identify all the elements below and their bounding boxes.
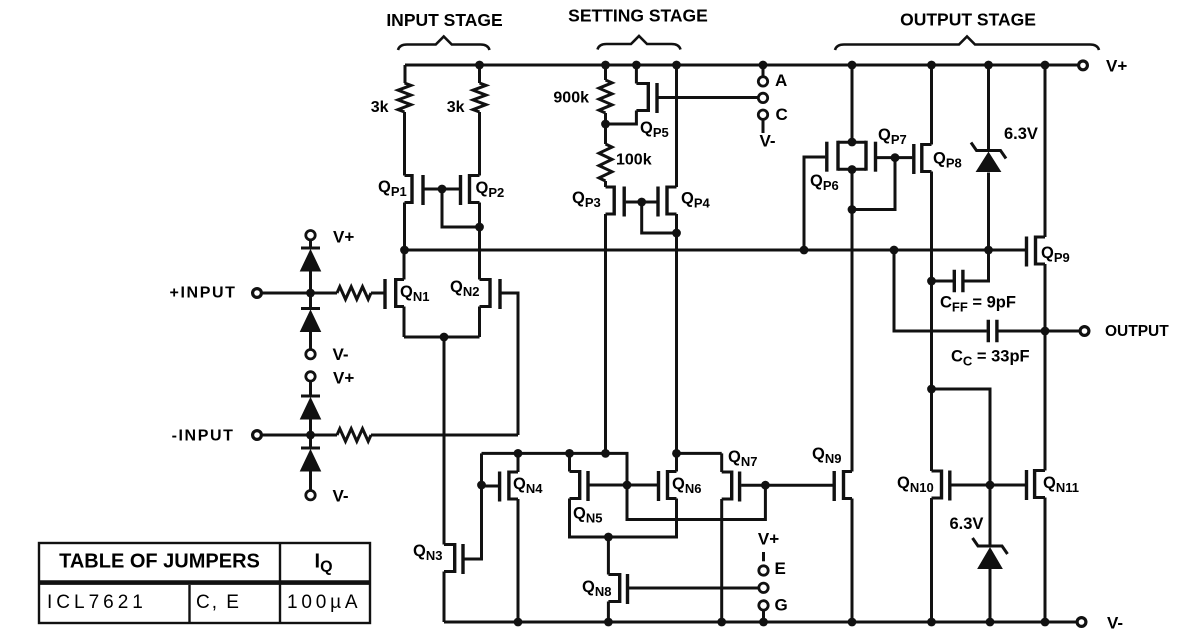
wire QN2 gate	[502, 293, 519, 435]
wire QN8 gate line	[629, 587, 759, 590]
wire A stub	[762, 65, 765, 76]
label SETTING STAGE	[568, 6, 708, 26]
terminal V- upper clamp	[306, 345, 349, 364]
zener diode 6.3V top	[971, 125, 1038, 172]
wire QN4-QN5 drain line	[482, 453, 766, 519]
junction QN9 drain node	[848, 205, 857, 214]
wire 900k column	[604, 65, 607, 453]
wire V+ to E stub	[762, 552, 765, 561]
resistor 3k (right)	[473, 83, 486, 112]
svg-text:TABLE OF JUMPERS: TABLE OF JUMPERS	[59, 551, 260, 573]
wire QP8 column	[930, 65, 933, 389]
transistor QP8	[914, 143, 962, 174]
wire QP5 gate line	[659, 96, 759, 99]
brace input stage	[398, 37, 490, 51]
svg-text:900k: 900k	[553, 90, 589, 107]
svg-text:V+: V+	[333, 228, 354, 247]
terminal E	[759, 559, 786, 578]
wire clamp2	[309, 381, 312, 490]
wire -input to QN2 gate	[371, 434, 518, 437]
junction dots on V+ rail	[475, 61, 1049, 70]
svg-text:V+: V+	[1106, 57, 1127, 76]
transistor QP2	[461, 174, 505, 205]
junction dots on V- rail	[514, 618, 1050, 627]
wire QN3 gate riser	[465, 453, 482, 559]
wire V+ rail	[405, 64, 1078, 67]
wire QP1-QP2 gate tie	[425, 189, 480, 227]
junction output	[1041, 327, 1050, 336]
terminal jumper mid AC	[758, 93, 767, 102]
svg-text:A: A	[775, 71, 787, 90]
svg-text:V+: V+	[758, 530, 779, 549]
wire CFF right	[963, 250, 989, 281]
svg-text:3k: 3k	[447, 99, 465, 116]
table of jumpers	[39, 543, 370, 623]
transistor QP1	[378, 174, 423, 205]
junction QN7 gate node	[761, 481, 770, 490]
wire QN5 gate	[590, 484, 628, 487]
label 3k right	[447, 99, 465, 116]
terminal OUTPUT	[1080, 323, 1169, 340]
resistor 900k	[599, 80, 612, 113]
junction QP6 drain	[848, 165, 857, 174]
svg-text:C: C	[776, 105, 788, 124]
label V- under C	[759, 132, 775, 151]
svg-text:OUTPUT STAGE: OUTPUT STAGE	[900, 10, 1036, 30]
junction QP4 gate-drain	[672, 229, 681, 238]
svg-text:3k: 3k	[371, 99, 389, 116]
transistor QN8	[582, 573, 628, 604]
terminal V-	[1077, 614, 1123, 630]
wire QN4 column	[517, 453, 520, 622]
transistor QN1	[385, 278, 429, 309]
transistor QN6	[659, 470, 702, 501]
wire QP4 column	[675, 65, 678, 453]
svg-text:-INPUT: -INPUT	[172, 428, 235, 445]
brace setting stage	[598, 36, 681, 50]
wire V- rail	[444, 621, 1077, 624]
svg-text:6.3V: 6.3V	[1004, 125, 1038, 143]
wire QP9 column	[1044, 65, 1047, 331]
junction QN6 top	[672, 449, 681, 458]
wire QN8 column	[607, 537, 610, 622]
junction dots drain line	[514, 449, 610, 458]
label 900k	[553, 90, 589, 107]
wire -input left	[262, 434, 337, 437]
wire QN7 column	[720, 453, 723, 622]
wire QP7 gate branch	[852, 158, 895, 210]
capacitor CFF	[940, 270, 1016, 315]
junction QN8 drain	[604, 533, 613, 542]
diode D3	[301, 396, 321, 419]
junction QP1/QP2 gates	[438, 185, 447, 194]
terminal jumper mid EG	[759, 583, 768, 592]
junction sources	[440, 333, 449, 342]
wire QP3-QP4 gate tie	[626, 202, 677, 233]
junction zener2 gate node	[986, 481, 995, 490]
wire QN3 bottom	[443, 572, 446, 623]
wire QN10 jog to zener	[932, 389, 991, 545]
svg-text:G: G	[775, 596, 788, 615]
wire +input left	[262, 292, 337, 295]
wire clamp1	[309, 240, 312, 350]
transistor QN5	[570, 470, 603, 526]
wire G stub	[762, 610, 765, 622]
wire gate-bias line	[405, 249, 1026, 252]
svg-text:SETTING STAGE: SETTING STAGE	[568, 6, 708, 26]
wire QN7-QN9 gate line	[741, 484, 833, 487]
transistor QP6	[810, 141, 852, 194]
diode D4	[301, 448, 321, 471]
resistor 3k (left)	[398, 83, 411, 112]
wire zener2 bottom	[989, 569, 992, 622]
transistor QP7	[852, 126, 907, 172]
wire QN10 column	[930, 389, 933, 622]
wire QP6 gate	[804, 157, 825, 250]
terminal V- lower clamp	[306, 487, 349, 506]
svg-text:ICL7621: ICL7621	[47, 592, 147, 613]
transistor QN3	[413, 542, 463, 574]
wire QN5 column	[570, 453, 609, 537]
junction QP3/QP4 gates	[637, 198, 646, 207]
transistor QP9	[1027, 236, 1070, 267]
wire tail to QN3	[443, 337, 446, 545]
junction QP2 gate-drain	[475, 223, 484, 232]
svg-text:V-: V-	[333, 487, 349, 506]
wire QN6 column	[608, 453, 676, 537]
svg-text:C, E: C, E	[196, 592, 241, 613]
wire output right	[998, 330, 1080, 333]
diode D2	[301, 309, 321, 332]
wire QP4 to QN7 drain line	[677, 452, 722, 455]
svg-text:6.3V: 6.3V	[950, 515, 984, 533]
wire 3k-left column	[403, 65, 407, 250]
terminal V+ lower clamp	[306, 369, 355, 388]
wire QN1 column	[403, 250, 406, 337]
transistor QN10	[897, 470, 950, 501]
junction dots on bias line	[400, 246, 993, 255]
wire +input to QN1 gate	[371, 292, 384, 295]
resistor 100k	[599, 144, 612, 181]
label 3k left	[371, 99, 389, 116]
svg-text:100k: 100k	[616, 152, 652, 169]
transistor QN9	[812, 445, 852, 501]
transistor QN11	[1027, 469, 1079, 500]
resistor -input	[337, 429, 371, 442]
junction QN5/QN6 gates	[623, 481, 632, 490]
label INPUT STAGE	[386, 10, 502, 30]
svg-text:100µA: 100µA	[287, 592, 361, 613]
junction QN10 top	[927, 385, 936, 394]
transistor QP3	[572, 186, 624, 217]
terminal V+ upper clamp	[306, 228, 355, 247]
svg-text:OUTPUT: OUTPUT	[1105, 323, 1169, 340]
wire QN9 column	[851, 65, 854, 622]
junction CFF left	[927, 277, 936, 286]
terminal V+	[1079, 57, 1128, 76]
svg-text:E: E	[775, 559, 786, 578]
transistor QN2	[450, 278, 500, 309]
junction +input clamp	[306, 289, 315, 298]
wire QP5 leads	[606, 65, 637, 124]
junction QP7 gate	[891, 153, 900, 162]
terminal C	[758, 105, 787, 124]
svg-text:INPUT STAGE: INPUT STAGE	[386, 10, 502, 30]
brace output stage	[835, 37, 1099, 51]
terminal -INPUT	[172, 428, 262, 445]
svg-text:V-: V-	[759, 132, 775, 151]
junction 900k-100k	[601, 120, 610, 129]
svg-text:V-: V-	[1107, 614, 1123, 630]
transistor QN4	[482, 471, 544, 502]
transistor QP5	[636, 82, 668, 140]
label 100k	[616, 152, 652, 169]
wire QP7-QP8 gate line	[877, 156, 912, 159]
junction QP6 source	[848, 138, 857, 147]
capacitor CC	[951, 320, 1030, 369]
wire QN10-QN11 gate line	[951, 484, 1025, 487]
wire zener1 column	[987, 65, 990, 250]
svg-text:V-: V-	[333, 345, 349, 364]
wire C to V-	[762, 119, 765, 133]
wire QN11 column	[1044, 331, 1047, 622]
terminal A	[758, 71, 787, 90]
transistor QN7	[722, 448, 758, 502]
wire output node	[894, 250, 987, 331]
terminal G	[759, 596, 788, 615]
junction -input clamp	[306, 431, 315, 440]
wire CFF left	[932, 280, 955, 283]
wire QN6 gate	[627, 484, 657, 487]
label V+ above E	[758, 530, 779, 549]
transistor QP4	[658, 186, 711, 217]
diode D1	[301, 248, 321, 271]
junction QN3/QN4 gate	[477, 481, 486, 490]
wire QN1-QN2 source join	[404, 336, 480, 339]
label OUTPUT STAGE	[900, 10, 1036, 30]
wire 3k-right column	[478, 65, 481, 337]
svg-text:V+: V+	[333, 369, 354, 388]
terminal +INPUT	[170, 285, 262, 302]
resistor +input	[337, 287, 371, 300]
svg-text:+INPUT: +INPUT	[170, 285, 237, 302]
zener diode 6.3V bottom	[950, 515, 1008, 569]
